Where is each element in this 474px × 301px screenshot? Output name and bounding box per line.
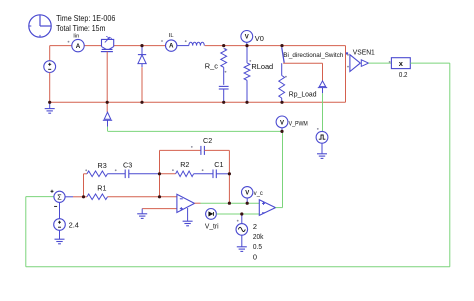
svg-text:2.4: 2.4 — [69, 221, 79, 230]
svg-text:Time Step: 1E-006: Time Step: 1E-006 — [56, 14, 116, 23]
svg-text:R2: R2 — [180, 160, 189, 169]
svg-text:V: V — [280, 120, 284, 126]
svg-text:A: A — [76, 43, 81, 50]
svg-text:Total Time: 15m: Total Time: 15m — [56, 24, 105, 33]
svg-text:V_PWM: V_PWM — [289, 121, 308, 128]
svg-text:R1: R1 — [97, 183, 106, 192]
svg-text:0: 0 — [253, 252, 257, 261]
svg-text:Bi_directional_Switch: Bi_directional_Switch — [283, 52, 344, 59]
svg-text:Σ: Σ — [57, 193, 62, 202]
svg-text:2: 2 — [253, 222, 257, 231]
svg-text:A: A — [169, 43, 174, 50]
svg-text:Rp_Load: Rp_Load — [289, 90, 317, 99]
svg-text:20k: 20k — [253, 232, 264, 241]
svg-text:0.5: 0.5 — [253, 242, 262, 251]
svg-text:Iin: Iin — [73, 33, 79, 39]
svg-text:0.2: 0.2 — [399, 72, 408, 79]
svg-text:V0: V0 — [255, 34, 264, 43]
svg-text:R_c: R_c — [205, 61, 218, 70]
svg-text:VSEN1: VSEN1 — [353, 50, 375, 57]
svg-text:C2: C2 — [203, 136, 212, 145]
svg-text:v_c: v_c — [254, 190, 264, 197]
svg-text:RLoad: RLoad — [251, 62, 273, 71]
svg-text:V: V — [245, 35, 249, 41]
svg-text:R3: R3 — [98, 161, 107, 170]
svg-text:V_tri: V_tri — [205, 223, 219, 230]
svg-text:C1: C1 — [214, 160, 223, 169]
svg-text:V: V — [245, 191, 249, 197]
svg-text:IL: IL — [169, 33, 175, 39]
svg-text:C3: C3 — [123, 160, 132, 169]
